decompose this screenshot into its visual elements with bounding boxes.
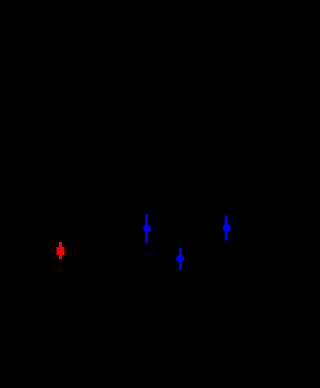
blue data point P3: circle marker bbox=[176, 254, 184, 262]
red data point P1: error bar bbox=[59, 242, 62, 259]
blue data point P4: circle marker bbox=[223, 224, 231, 232]
blue data point P4: error bar bbox=[225, 216, 228, 241]
blue data point P3: error bar bbox=[179, 248, 182, 270]
blue data point P2: circle marker bbox=[143, 225, 151, 233]
blue data point P2: error bar bbox=[145, 214, 148, 243]
red data point P1: square marker bbox=[57, 247, 65, 255]
